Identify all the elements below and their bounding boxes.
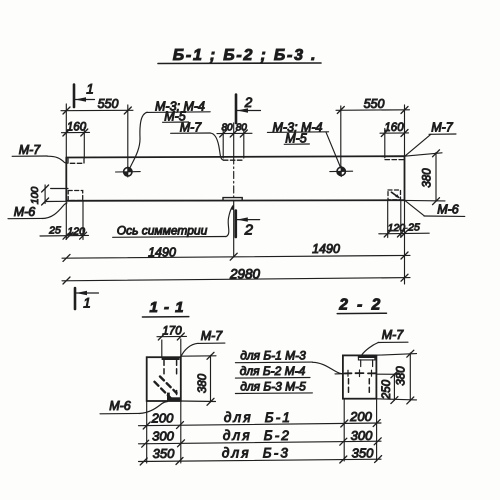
dimension 2980	[62, 267, 410, 285]
dimension 80|80 center	[217, 123, 252, 159]
svg-text:М-5: М-5	[164, 110, 186, 124]
plate M-6 left (dashed square, bottom-left of beam)	[68, 191, 83, 201]
dimension 550 right	[336, 97, 410, 167]
title 1-1	[142, 299, 188, 317]
svg-text:1: 1	[83, 296, 91, 311]
table texts row 2: 300 / для Б-2 / 300	[152, 428, 373, 444]
svg-text:1: 1	[86, 82, 94, 97]
label block для Б-1 М-3 / Б-2 М-4 / Б-3 М-5 with leader	[235, 349, 348, 394]
label M-7 middle with leader	[171, 121, 224, 161]
svg-text:200: 200	[349, 409, 372, 424]
title 2-2	[337, 297, 386, 314]
section 2-2 top plate M-7 (hatched)	[358, 355, 376, 360]
dimension 250 (section 2-2)	[376, 371, 399, 404]
label M-6 right with leader	[405, 201, 465, 217]
svg-text:для Б-1: для Б-1	[224, 410, 292, 425]
label M-6 (section 1-1) with leader	[100, 399, 168, 414]
svg-text:М-6: М-6	[437, 203, 459, 217]
dimension 100 (left of beam)	[29, 185, 68, 205]
label M-3;M-4 / M-5 right with leader to anchor circle	[267, 121, 340, 169]
svg-text:для Б-2 М-4: для Б-2 М-4	[240, 364, 306, 378]
svg-text:для Б-1 М-3: для Б-1 М-3	[240, 349, 306, 363]
label M-7 top-left with leader	[12, 143, 67, 163]
dimension 380 (section 2-2)	[376, 350, 416, 404]
section marker 2 bottom	[236, 211, 260, 239]
table row line 2 with ticks	[139, 438, 382, 447]
svg-text:25: 25	[48, 225, 61, 237]
svg-text:300: 300	[152, 429, 174, 444]
svg-text:М-7: М-7	[19, 143, 42, 157]
table texts row 3: 350 / для Б-3 / 350	[153, 446, 374, 462]
svg-text:Ось симметрии: Ось симметрии	[117, 224, 208, 238]
svg-text:380: 380	[422, 168, 434, 188]
svg-text:160: 160	[384, 122, 404, 134]
dimension 380 right of beam	[405, 150, 446, 205]
plate M-7 left (dashed, top-left of beam)	[68, 159, 84, 164]
svg-text:300: 300	[351, 428, 373, 443]
section 1-1 top plate M-7 (hatched)	[162, 357, 180, 360]
svg-text:2: 2	[244, 95, 253, 110]
table texts row 1: 200 / для Б-1 / 200	[151, 409, 373, 426]
svg-text:170: 170	[162, 326, 182, 338]
plate M-7 right (dashed, top-right of beam)	[385, 159, 404, 161]
svg-text:М-7: М-7	[382, 328, 405, 342]
svg-text:2980: 2980	[229, 267, 261, 282]
section marker 2 top	[236, 95, 261, 124]
section 1-1 outline	[147, 357, 181, 401]
section 1-1 bottom plate M-6 (solid L)	[167, 393, 181, 401]
svg-text:380: 380	[197, 373, 209, 393]
label M-7 (section 2-2) with leader	[362, 328, 409, 355]
svg-text:25: 25	[407, 222, 420, 234]
svg-text:350: 350	[352, 446, 374, 461]
dimension 550 left	[61, 97, 133, 168]
svg-text:для Б-2: для Б-2	[223, 428, 291, 443]
svg-text:250: 250	[381, 379, 393, 400]
svg-text:1 - 1: 1 - 1	[149, 299, 184, 316]
beam outline	[66, 156, 404, 201]
svg-text:М-6: М-6	[14, 205, 36, 219]
section 2-2 anchor cross marks	[345, 370, 376, 377]
svg-text:2: 2	[244, 222, 254, 239]
dimension 170 (section 1-1)	[157, 326, 187, 358]
svg-text:80: 80	[221, 123, 233, 134]
section 2-2 anchor dashes below	[349, 379, 370, 393]
label M-3;M-4 / M-5 left with leader to anchor circle	[130, 100, 210, 168]
svg-text:350: 350	[153, 446, 175, 461]
svg-text:550: 550	[98, 97, 119, 111]
section 2-2 plate legs	[361, 360, 373, 367]
svg-text:120: 120	[388, 222, 406, 234]
dimension 380 (section 1-1)	[181, 352, 216, 405]
section marker 1 bottom	[75, 288, 99, 311]
anchor circle right (M-3/M-4/M-5)	[330, 166, 353, 176]
svg-text:550: 550	[364, 97, 385, 111]
svg-text:М-6: М-6	[109, 399, 131, 413]
dimension 120-25 bottom right	[379, 201, 429, 238]
anchor circle left (M-3/M-4/M-5)	[116, 167, 141, 177]
svg-text:1490: 1490	[312, 242, 340, 256]
centerline / section 2 axis	[233, 123, 235, 257]
label M-7 (section 1-1) with leader	[181, 329, 225, 357]
svg-text:2 - 2: 2 - 2	[338, 297, 383, 314]
dimension 160 right	[380, 122, 409, 158]
section marker 1 top	[74, 82, 95, 108]
svg-text:М-5: М-5	[285, 132, 307, 146]
plate M-7 middle (dashed, top-center of beam)	[223, 159, 243, 161]
svg-text:100: 100	[29, 187, 41, 205]
svg-text:80: 80	[236, 123, 248, 134]
section 1-1 M-7 anchor dashes	[164, 360, 177, 375]
svg-text:М-7: М-7	[431, 121, 454, 135]
table row line 3 with ticks	[139, 456, 382, 465]
bottom center plate (solid)	[223, 198, 242, 201]
dimension 1490 (left half) and 1490 (right half)	[62, 200, 410, 284]
plate M-6 right (dashed square, bottom-right of beam)	[388, 190, 401, 200]
label M-7 top-right with leader	[405, 121, 457, 157]
section 2-2 outline	[343, 355, 377, 398]
svg-text:для Б-3 М-5: для Б-3 М-5	[240, 380, 306, 394]
svg-text:М-7: М-7	[201, 329, 224, 343]
svg-text:Б-1 ; Б-2 ; Б-3 .: Б-1 ; Б-2 ; Б-3 .	[173, 47, 318, 64]
svg-text:200: 200	[151, 411, 174, 426]
axis of symmetry label with leader	[113, 204, 234, 237]
title Б-1; Б-2; Б-3	[158, 47, 321, 64]
svg-text:380: 380	[396, 366, 408, 386]
svg-text:1490: 1490	[148, 246, 176, 260]
svg-text:160: 160	[67, 122, 87, 134]
svg-text:для Б-3: для Б-3	[222, 446, 290, 461]
table row line 1 with ticks	[139, 399, 382, 463]
svg-text:120: 120	[67, 226, 85, 238]
dimension 160 left	[62, 122, 90, 159]
label M-6 left with leader	[8, 203, 67, 219]
dimension 25|120 bottom left	[40, 201, 89, 240]
section 1-1 M-6 diagonal anchor dashes	[155, 377, 177, 399]
